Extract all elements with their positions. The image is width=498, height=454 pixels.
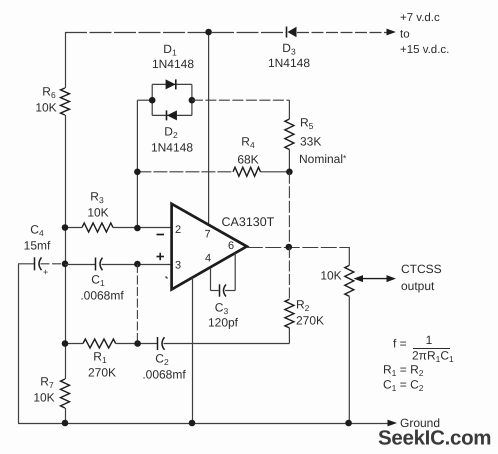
svg-text:120pf: 120pf (208, 316, 239, 330)
node: R3 left junction on rail (62, 224, 69, 231)
wire: D1/D2 box left vertical (151, 84, 153, 115)
svg-text:10K: 10K (87, 206, 108, 220)
resistor R4 (233, 167, 261, 176)
node: ground/pin4 junction (189, 420, 196, 427)
net label +7 to +15 v.d.c. (400, 12, 449, 56)
wire: output from pin6 (247, 247, 349, 249)
diode D2 (points left) (167, 110, 177, 120)
op-amp U1 CA3130T (172, 204, 247, 290)
plus input mark (157, 253, 165, 260)
resistor R3 (65, 223, 172, 232)
svg-text:D3: D3 (282, 41, 296, 57)
wire: R4 left lead (faded) (137, 171, 233, 173)
svg-text:output: output (401, 279, 435, 293)
node: D1/D2 left junction (149, 97, 156, 104)
wire: top supply rail right section (faded) (297, 32, 389, 34)
svg-text:3: 3 (175, 260, 181, 272)
resistor R1 and capacitor C2 line (65, 339, 157, 348)
svg-text:270K: 270K (296, 314, 324, 328)
node: R4/x137 junction (134, 169, 141, 176)
svg-text:CTCSS: CTCSS (401, 262, 442, 276)
svg-text:7: 7 (204, 229, 210, 241)
svg-text:R2: R2 (296, 298, 310, 314)
wire: stub from D1/D2 box to x137 rail (137, 99, 152, 101)
svg-text:.0068mf: .0068mf (142, 368, 186, 382)
svg-text:15mf: 15mf (24, 239, 51, 253)
svg-text:R3: R3 (90, 190, 104, 206)
wire: left rail middle (65, 115, 67, 379)
node: C4/rail junction (62, 261, 69, 268)
wire: left rail upper (65, 32, 67, 88)
svg-text:Nominal*: Nominal* (299, 152, 347, 166)
svg-text:2: 2 (175, 224, 181, 236)
wire: R5 top lead (288, 100, 290, 119)
resistor R7 (61, 379, 70, 408)
pot wiper arrow to CTCSS output (354, 275, 397, 282)
node: pin2 junction (134, 225, 141, 232)
wire: D2 bottom branch (152, 114, 192, 116)
svg-text:R7: R7 (40, 375, 54, 391)
capacitor C3 (pin4 to pin6 bracket) (211, 253, 236, 297)
svg-text:R1: R1 (93, 350, 107, 366)
svg-text:R6: R6 (42, 85, 56, 101)
node: ground/pot junction (345, 420, 352, 427)
wire: D1/D2 right node to R5 top (faded) (192, 99, 290, 101)
node: R1/C2 junction (134, 340, 141, 347)
svg-text:1N4148: 1N4148 (152, 57, 194, 71)
wire: pin4 vertical to ground (192, 278, 194, 423)
minus input mark (157, 234, 165, 236)
svg-text:1N4148: 1N4148 (268, 56, 310, 70)
net label CTCSS output (401, 262, 442, 293)
svg-text:R1 = R2: R1 = R2 (383, 363, 424, 379)
svg-text:10K: 10K (33, 391, 54, 405)
svg-text:C4: C4 (30, 223, 44, 239)
svg-text:SeekIC.com: SeekIC.com (378, 427, 491, 450)
stray tick mark near pin3 (166, 277, 168, 279)
diode D1 (points right) (166, 79, 176, 89)
resistor R2 (285, 247, 294, 344)
wire: D1/D2 box right vertical (191, 84, 193, 115)
resistor R6 (61, 88, 70, 115)
svg-text:6: 6 (228, 240, 234, 252)
wire: R5/R4 node down to output node (288, 172, 290, 247)
svg-text:+15 v.d.c.: +15 v.d.c. (400, 44, 449, 56)
svg-text:C3: C3 (215, 301, 229, 317)
wire: left rail lower stub (65, 408, 67, 423)
capacitor C2 (158, 337, 290, 350)
svg-text:to: to (400, 29, 410, 41)
arrow to supply text (387, 29, 397, 36)
resistor R5 (285, 119, 294, 150)
potentiometer 10K (345, 247, 354, 423)
svg-text:R4: R4 (241, 135, 255, 151)
node: R4/R5 junction (286, 169, 293, 176)
capacitor C1 (65, 258, 172, 271)
svg-text:D1: D1 (163, 42, 177, 58)
node: pin3 junction (134, 261, 141, 268)
svg-text:.0068mf: .0068mf (80, 289, 124, 303)
svg-text:4: 4 (205, 253, 211, 265)
node: output junction (286, 244, 293, 251)
svg-text:D2: D2 (164, 125, 178, 141)
svg-text:1N4148: 1N4148 (151, 141, 193, 155)
svg-text:68K: 68K (237, 153, 258, 167)
node: ground/left rail junction (62, 420, 69, 427)
svg-text:270K: 270K (88, 366, 116, 380)
svg-text:C1 = C2: C1 = C2 (383, 378, 424, 394)
svg-text:10K: 10K (35, 101, 56, 115)
svg-text:+: + (43, 267, 48, 277)
svg-text:+7 v.d.c: +7 v.d.c (400, 12, 440, 24)
svg-text:CA3130T: CA3130T (222, 215, 275, 229)
svg-text:R5: R5 (300, 116, 314, 132)
wire: vertical x137 upper (diodes to pin2 node) (136, 100, 138, 228)
svg-text:10K: 10K (320, 269, 341, 283)
diode D3 (points left) (287, 27, 297, 38)
formula f = 1/(2*pi*R1*C1) (393, 333, 454, 364)
wire: pin7 vertical from supply rail (208, 32, 210, 225)
svg-text:C1: C1 (91, 273, 105, 289)
capacitor C4 (18, 257, 65, 270)
node: D1/D2 right junction (189, 97, 196, 104)
svg-text:1: 1 (426, 333, 433, 347)
svg-text:C2: C2 (155, 352, 169, 368)
wire: ground rail (18, 423, 390, 425)
wire: R4 right lead (261, 171, 290, 173)
wire: top supply rail left section (65, 32, 286, 34)
wire: D1 top branch (152, 83, 192, 85)
node: R1 left junction (62, 340, 69, 347)
wire: vertical x137 lower (pin3 node to R1/C2 line) (136, 264, 138, 344)
wire: R5 bottom lead (288, 150, 290, 172)
wire: far-left vertical from C4 (18, 264, 20, 423)
arrow to ground label (388, 420, 398, 427)
svg-text:33K: 33K (300, 135, 321, 149)
svg-text:f =: f = (393, 337, 407, 351)
node: junction supply rail / pin7 (205, 29, 212, 36)
